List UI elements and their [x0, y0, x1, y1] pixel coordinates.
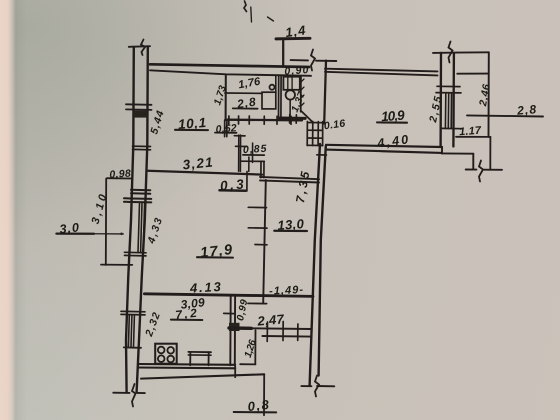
svg-text:0,90: 0,90 [284, 64, 309, 78]
svg-text:0,98: 0,98 [109, 168, 131, 181]
svg-text:4,33: 4,33 [145, 216, 165, 246]
svg-text:5,44: 5,44 [148, 109, 167, 136]
svg-text:4,40: 4,40 [375, 132, 409, 150]
svg-text:1,4: 1,4 [284, 22, 307, 40]
svg-text:1,37: 1,37 [290, 90, 308, 114]
svg-text:2,46: 2,46 [477, 83, 493, 108]
svg-text:2,47: 2,47 [256, 311, 285, 328]
svg-text:1,26: 1,26 [243, 338, 259, 359]
svg-text:3,21: 3,21 [182, 154, 213, 172]
svg-text:0,3: 0,3 [219, 176, 244, 193]
svg-text:2,8: 2,8 [516, 102, 537, 118]
svg-text:0.16: 0.16 [323, 117, 346, 132]
svg-text:4.13: 4.13 [189, 279, 222, 296]
svg-text:0,85: 0,85 [243, 143, 267, 156]
svg-text:3,0: 3,0 [59, 221, 80, 237]
svg-text:0,8: 0,8 [247, 397, 271, 414]
svg-text:7,2: 7,2 [175, 306, 198, 322]
svg-text:2,32: 2,32 [143, 311, 163, 339]
svg-text:1.17: 1.17 [459, 125, 483, 139]
svg-text:-1,49-: -1,49- [269, 284, 304, 298]
svg-text:1,76: 1,76 [237, 75, 262, 91]
svg-text:7,35: 7,35 [293, 170, 312, 204]
svg-text:0,52: 0,52 [215, 122, 237, 135]
svg-text:0,99: 0,99 [235, 298, 250, 322]
